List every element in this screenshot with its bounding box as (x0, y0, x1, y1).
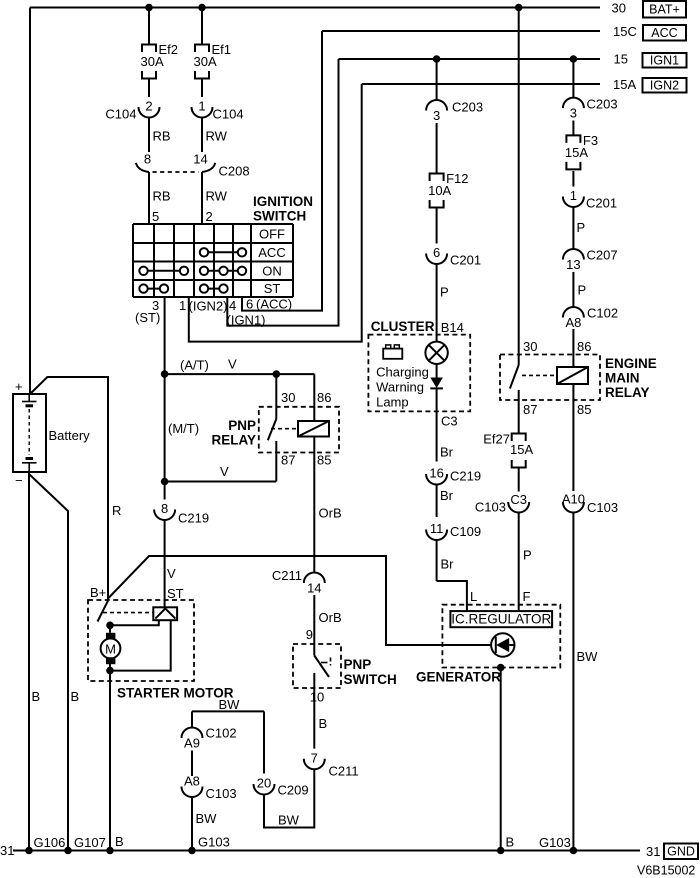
svg-text:B14: B14 (441, 320, 464, 335)
svg-text:B+: B+ (90, 585, 106, 600)
svg-text:13: 13 (566, 257, 580, 272)
svg-text:C104: C104 (213, 107, 244, 122)
svg-text:C208: C208 (219, 164, 250, 179)
svg-text:Warning: Warning (376, 380, 424, 395)
svg-text:C203: C203 (587, 97, 618, 112)
svg-text:30A: 30A (141, 54, 164, 69)
svg-text:C209: C209 (278, 783, 309, 798)
svg-text:1: 1 (179, 298, 186, 313)
svg-text:C102: C102 (206, 726, 237, 741)
svg-text:+: + (15, 379, 23, 394)
svg-text:IGNITION: IGNITION (253, 194, 313, 209)
svg-text:20: 20 (257, 776, 271, 791)
svg-text:RB: RB (153, 129, 171, 144)
svg-text:G103: G103 (198, 835, 230, 850)
svg-text:PNP: PNP (228, 418, 256, 433)
svg-text:(ACC): (ACC) (256, 297, 292, 312)
svg-text:11: 11 (430, 521, 444, 536)
svg-text:MAIN: MAIN (605, 371, 640, 386)
svg-text:(A/T): (A/T) (180, 358, 209, 373)
svg-text:A8: A8 (184, 774, 200, 789)
svg-text:15A: 15A (565, 145, 588, 160)
svg-text:ON: ON (262, 264, 282, 279)
svg-text:8: 8 (144, 152, 151, 167)
svg-text:(M/T): (M/T) (168, 421, 199, 436)
svg-text:30: 30 (612, 1, 626, 16)
svg-text:15C: 15C (613, 24, 637, 39)
svg-text:15A: 15A (510, 442, 533, 457)
svg-text:RB: RB (153, 189, 171, 204)
svg-text:B: B (32, 689, 41, 704)
svg-text:C211: C211 (272, 568, 302, 583)
svg-text:RW: RW (206, 189, 228, 204)
svg-text:10A: 10A (428, 183, 451, 198)
svg-text:F: F (523, 589, 531, 604)
svg-text:86: 86 (317, 390, 331, 405)
svg-text:7: 7 (311, 750, 318, 765)
svg-text:C201: C201 (450, 253, 481, 268)
svg-text:30A: 30A (194, 54, 217, 69)
svg-text:14: 14 (193, 152, 207, 167)
svg-text:BW: BW (577, 649, 599, 664)
svg-text:GND: GND (667, 845, 695, 859)
svg-text:M: M (105, 641, 116, 656)
svg-text:BW: BW (196, 811, 218, 826)
svg-text:IC.REGULATOR: IC.REGULATOR (451, 612, 551, 627)
svg-text:Br: Br (440, 445, 454, 460)
svg-text:C3: C3 (510, 492, 527, 507)
svg-text:85: 85 (317, 453, 331, 468)
svg-text:C203: C203 (452, 100, 483, 115)
svg-text:CLUSTER: CLUSTER (371, 319, 435, 334)
svg-text:Charging: Charging (376, 364, 429, 379)
svg-text:V: V (220, 464, 229, 479)
svg-text:87: 87 (523, 402, 537, 417)
svg-text:16: 16 (429, 466, 443, 481)
svg-text:85: 85 (577, 402, 591, 417)
svg-text:G103: G103 (539, 835, 571, 850)
svg-text:87: 87 (281, 453, 295, 468)
svg-text:ACC: ACC (258, 245, 285, 260)
svg-text:10: 10 (310, 690, 324, 705)
svg-text:Ef27: Ef27 (483, 432, 510, 447)
svg-text:V6B15002: V6B15002 (637, 864, 695, 878)
svg-text:15A: 15A (613, 77, 636, 92)
svg-text:5: 5 (152, 209, 159, 224)
svg-text:C103: C103 (206, 786, 237, 801)
svg-text:C207: C207 (587, 248, 618, 263)
svg-text:G106: G106 (34, 835, 66, 850)
svg-text:SWITCH: SWITCH (253, 209, 306, 224)
svg-text:C219: C219 (178, 511, 209, 526)
svg-text:2: 2 (145, 99, 152, 114)
svg-text:(IGN2): (IGN2) (189, 299, 228, 314)
svg-text:BW: BW (219, 697, 241, 712)
svg-text:C103: C103 (587, 500, 618, 515)
svg-text:86: 86 (577, 339, 591, 354)
svg-text:B: B (71, 689, 80, 704)
svg-text:14: 14 (307, 581, 321, 596)
svg-text:1: 1 (198, 99, 205, 114)
svg-text:8: 8 (161, 501, 168, 516)
svg-text:R: R (112, 503, 121, 518)
svg-text:ST: ST (264, 281, 281, 296)
svg-text:Br: Br (441, 557, 455, 572)
svg-text:IGN2: IGN2 (650, 79, 679, 93)
svg-text:PNP: PNP (344, 657, 372, 672)
svg-text:G107: G107 (74, 835, 106, 850)
svg-text:3: 3 (433, 108, 440, 123)
svg-text:C211: C211 (329, 764, 359, 779)
svg-text:3: 3 (570, 106, 577, 121)
svg-text:Br: Br (440, 488, 454, 503)
svg-text:C201: C201 (586, 196, 617, 211)
svg-text:−: − (15, 473, 23, 488)
svg-text:31: 31 (0, 843, 14, 858)
svg-text:RELAY: RELAY (605, 385, 650, 400)
svg-text:2: 2 (206, 209, 213, 224)
svg-text:IGN1: IGN1 (650, 54, 679, 68)
svg-text:15: 15 (614, 52, 628, 67)
svg-text:V: V (228, 357, 237, 372)
svg-text:A10: A10 (562, 492, 585, 507)
svg-text:RELAY: RELAY (211, 433, 256, 448)
svg-text:4: 4 (229, 298, 236, 313)
svg-text:C103: C103 (475, 500, 506, 515)
svg-text:OFF: OFF (259, 227, 285, 242)
svg-text:L: L (470, 589, 477, 604)
svg-text:OrB: OrB (319, 610, 342, 625)
svg-text:(ST): (ST) (135, 310, 160, 325)
svg-text:31: 31 (646, 844, 660, 859)
svg-text:P: P (578, 283, 587, 298)
svg-text:B: B (506, 835, 515, 850)
svg-text:6: 6 (246, 297, 253, 312)
svg-text:P: P (523, 548, 532, 563)
svg-text:B: B (115, 834, 124, 849)
svg-text:ACC: ACC (651, 26, 677, 40)
svg-text:30: 30 (281, 390, 295, 405)
svg-text:STARTER MOTOR: STARTER MOTOR (117, 686, 234, 701)
svg-text:C219: C219 (450, 469, 481, 484)
svg-text:ST: ST (167, 586, 184, 601)
svg-text:SWITCH: SWITCH (344, 672, 397, 687)
svg-text:Lamp: Lamp (376, 395, 409, 410)
svg-text:B: B (319, 716, 328, 731)
svg-text:ENGINE: ENGINE (605, 356, 657, 371)
svg-text:C102: C102 (587, 306, 618, 321)
svg-text:V: V (167, 566, 176, 581)
svg-text:BAT+: BAT+ (649, 3, 680, 17)
svg-text:Battery: Battery (49, 428, 91, 443)
svg-text:9: 9 (306, 627, 313, 642)
svg-text:6: 6 (433, 245, 440, 260)
svg-text:A9: A9 (184, 736, 200, 751)
svg-text:OrB: OrB (319, 506, 342, 521)
svg-text:P: P (577, 220, 586, 235)
svg-text:30: 30 (523, 339, 537, 354)
svg-text:GENERATOR: GENERATOR (416, 670, 501, 685)
svg-text:RW: RW (206, 129, 228, 144)
svg-text:C104: C104 (105, 107, 136, 122)
svg-text:C109: C109 (450, 524, 481, 539)
svg-text:A8: A8 (565, 315, 581, 330)
svg-text:BW: BW (278, 813, 300, 828)
svg-text:C3: C3 (441, 414, 458, 429)
svg-text:1: 1 (570, 188, 577, 203)
svg-text:P: P (440, 285, 449, 300)
